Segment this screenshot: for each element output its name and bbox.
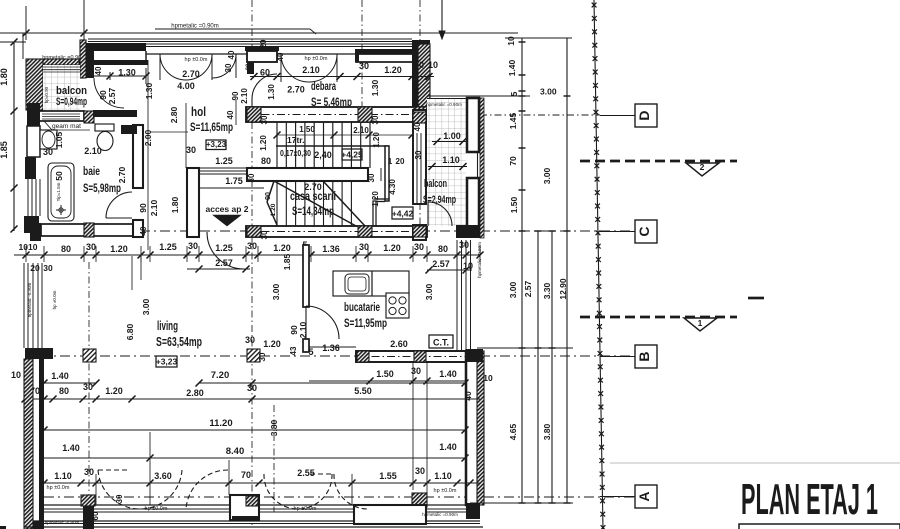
- bottom left corner mark: [0, 526, 6, 529]
- svg-text:hp ±0.0m: hp ±0.0m: [434, 488, 457, 494]
- stair enclosure: [276, 145, 389, 147]
- axis D horizontal: [480, 114, 600, 116]
- balcon right door: [427, 202, 429, 226]
- hol pier: [187, 168, 199, 237]
- svg-text:30: 30: [260, 230, 269, 239]
- grid bubble B: [635, 345, 657, 368]
- svg-text:30: 30: [86, 242, 96, 252]
- debara window arcs: [281, 54, 309, 82]
- svg-text:hol: hol: [191, 104, 206, 119]
- svg-text:30: 30: [186, 145, 196, 155]
- chain x=552: [551, 231, 553, 503]
- svg-text:1.30: 1.30: [370, 79, 380, 96]
- svg-text:1.55: 1.55: [379, 471, 397, 481]
- extension lines below C.T.: [412, 361, 414, 490]
- bucatarie bottom wall: [356, 351, 478, 362]
- svg-text:geam mat: geam mat: [52, 123, 81, 130]
- svg-text:1.85: 1.85: [282, 253, 292, 270]
- svg-text:2.10: 2.10: [240, 88, 249, 104]
- svg-text:2.70: 2.70: [182, 69, 200, 79]
- row 8.40: [44, 457, 465, 459]
- top window band: [88, 38, 412, 40]
- svg-text:1.40: 1.40: [439, 369, 457, 379]
- svg-text:30: 30: [84, 467, 94, 477]
- svg-text:1.80: 1.80: [170, 196, 180, 213]
- svg-text:1.30: 1.30: [144, 82, 154, 99]
- bottom right planter: [412, 493, 427, 507]
- kitchen counter: [333, 271, 409, 296]
- bathtub: [48, 163, 74, 221]
- svg-text:10: 10: [483, 373, 493, 383]
- svg-text:1.80: 1.80: [0, 68, 9, 86]
- svg-text:1.20: 1.20: [273, 243, 291, 253]
- svg-text:2.80: 2.80: [169, 106, 179, 123]
- left wall: black/window segments: [27, 103, 40, 126]
- svg-text:20: 20: [396, 157, 405, 166]
- svg-text:1.25: 1.25: [215, 156, 233, 166]
- svg-text:1.20: 1.20: [371, 191, 380, 207]
- svg-text:4.30: 4.30: [388, 179, 397, 195]
- bottom sill lines: [44, 504, 470, 506]
- svg-text:30: 30: [224, 63, 233, 72]
- svg-text:S=14,34mp: S=14,34mp: [292, 204, 334, 218]
- svg-text:30: 30: [188, 241, 198, 251]
- svg-text:+4,42: +4,42: [392, 209, 414, 219]
- svg-text:1.10: 1.10: [434, 471, 452, 481]
- debara top-right wall: [355, 49, 413, 54]
- svg-text:S=0,94mp: S=0,94mp: [56, 96, 87, 108]
- svg-text:30: 30: [367, 173, 376, 182]
- svg-text:50: 50: [54, 171, 64, 181]
- left chain 1.80/1.85: [13, 42, 15, 231]
- stair treads upper: [276, 122, 278, 168]
- svg-text:3.30: 3.30: [542, 282, 552, 299]
- baie bottom wall: [41, 224, 133, 236]
- svg-text:baie: baie: [83, 164, 100, 178]
- svg-text:2.70: 2.70: [117, 166, 127, 183]
- toilet: [95, 124, 114, 131]
- svg-text:30: 30: [414, 150, 423, 159]
- svg-text:30: 30: [258, 352, 267, 361]
- svg-text:Tip=1.5m: Tip=1.5m: [56, 182, 61, 201]
- bottom piers: [81, 495, 95, 506]
- svg-text:30: 30: [359, 242, 369, 252]
- main dim row: [14, 254, 480, 256]
- svg-text:hpmetalic =0.90m: hpmetalic =0.90m: [426, 102, 462, 107]
- section line 1: [580, 316, 737, 319]
- landing edge lines: [199, 170, 246, 172]
- svg-text:S=11,65mp: S=11,65mp: [190, 120, 233, 134]
- svg-text:30: 30: [459, 240, 469, 250]
- grid bubble A: [635, 485, 657, 508]
- svg-text:20: 20: [246, 63, 252, 70]
- svg-text:70: 70: [508, 156, 518, 166]
- svg-text:1.00: 1.00: [443, 131, 461, 141]
- door arc hol->living: [207, 232, 244, 269]
- svg-text:2.60: 2.60: [390, 339, 408, 349]
- balcon tiles: [43, 65, 80, 110]
- bucatarie right window band: [456, 240, 458, 350]
- svg-text:80: 80: [438, 244, 448, 254]
- svg-text:30: 30: [260, 115, 269, 124]
- svg-text:C.T.: C.T.: [433, 338, 449, 348]
- svg-text:30: 30: [247, 383, 257, 393]
- sink: [40, 130, 57, 149]
- svg-text:2: 2: [700, 162, 705, 172]
- row 1.40/7.20 y=383: [44, 382, 96, 384]
- wall under debara: [246, 107, 427, 122]
- svg-text:5: 5: [308, 347, 313, 357]
- svg-text:hp=0.90: hp=0.90: [44, 86, 49, 103]
- grid bubble D: [635, 104, 657, 127]
- svg-text:6.80: 6.80: [125, 323, 135, 340]
- sill line hol/debara: [146, 53, 412, 55]
- svg-text:30: 30: [115, 494, 124, 503]
- svg-text:2.10: 2.10: [298, 321, 308, 338]
- svg-text:S=5,98mp: S=5,98mp: [83, 181, 121, 195]
- svg-text:hp ±0.0m: hp ±0.0m: [52, 290, 57, 309]
- svg-text:30: 30: [359, 61, 369, 71]
- svg-text:C: C: [636, 226, 652, 236]
- svg-text:3.80: 3.80: [269, 419, 279, 436]
- svg-text:40: 40: [226, 110, 235, 119]
- svg-text:60: 60: [260, 68, 270, 78]
- svg-text:3.00: 3.00: [424, 283, 434, 300]
- svg-text:PLAN ETAJ 1: PLAN ETAJ 1: [741, 475, 878, 524]
- svg-text:10: 10: [428, 60, 438, 70]
- svg-text:S=2,94mp: S=2,94mp: [423, 194, 456, 206]
- svg-text:30: 30: [371, 115, 380, 124]
- axis B horizontal: [40, 355, 631, 357]
- svg-text:90: 90: [231, 91, 240, 100]
- svg-text:1.50: 1.50: [376, 369, 394, 379]
- axis C horizontal: [40, 230, 633, 232]
- balcon right tiles: [427, 99, 466, 226]
- svg-text:2.57: 2.57: [215, 258, 233, 268]
- svg-text:S=63,54mp: S=63,54mp: [156, 334, 202, 349]
- svg-text:1.36: 1.36: [322, 343, 340, 353]
- svg-text:30: 30: [414, 60, 424, 70]
- svg-text:1.30: 1.30: [267, 84, 276, 100]
- axis line vertical x=89: [88, 262, 90, 527]
- svg-text:80: 80: [261, 156, 271, 166]
- svg-text:1.10: 1.10: [442, 155, 460, 165]
- svg-text:30: 30: [411, 366, 421, 376]
- svg-text:S=11,95mp: S=11,95mp: [344, 316, 387, 330]
- svg-text:1.40: 1.40: [62, 443, 80, 453]
- svg-text:1010: 1010: [19, 242, 38, 252]
- svg-text:3.60: 3.60: [154, 471, 172, 481]
- stair top dim row: [277, 134, 412, 136]
- svg-text:11.20: 11.20: [209, 418, 232, 429]
- svg-text:2.10: 2.10: [84, 146, 102, 156]
- svg-text:40: 40: [227, 50, 236, 59]
- debara dim row: [250, 76, 434, 78]
- svg-text:1.45: 1.45: [508, 112, 518, 129]
- baie top wall w/ geam mat: [31, 111, 84, 121]
- svg-text:5.50: 5.50: [354, 386, 372, 396]
- svg-text:30: 30: [83, 382, 93, 392]
- svg-text:40: 40: [413, 122, 422, 131]
- svg-text:30: 30: [43, 263, 53, 273]
- svg-text:1.20: 1.20: [259, 135, 268, 151]
- left lower wall: [25, 348, 53, 359]
- svg-text:30: 30: [43, 147, 53, 157]
- svg-text:3.00: 3.00: [540, 87, 557, 97]
- title block box: [739, 524, 900, 529]
- axis A horizontal: [44, 496, 634, 498]
- svg-text:80: 80: [59, 386, 69, 396]
- baie door arc: [106, 192, 132, 218]
- svg-text:20: 20: [30, 263, 40, 273]
- svg-text:2.80: 2.80: [186, 388, 204, 398]
- section line 2: [580, 160, 737, 163]
- svg-text:1.20: 1.20: [384, 65, 402, 75]
- svg-text:40: 40: [463, 391, 473, 401]
- level mark right: [748, 297, 764, 300]
- svg-text:30: 30: [414, 242, 424, 252]
- row 70/80/30/1.20/2.80: [25, 398, 306, 400]
- top dimension line y=33: [0, 32, 518, 34]
- svg-text:2.55: 2.55: [297, 468, 315, 478]
- svg-text:1.20: 1.20: [263, 339, 281, 349]
- svg-text:2.10: 2.10: [149, 199, 159, 216]
- svg-text:3.00: 3.00: [508, 281, 518, 298]
- svg-text:A: A: [636, 491, 652, 501]
- living top wall: [246, 226, 427, 237]
- svg-text:43: 43: [289, 346, 298, 355]
- hol window arcs: [160, 54, 186, 80]
- wall top-left corner: [80, 40, 86, 78]
- svg-text:1.40: 1.40: [439, 442, 457, 452]
- axis line vertical x=362: [361, 0, 363, 130]
- svg-text:1.40: 1.40: [51, 371, 69, 381]
- svg-text:30: 30: [247, 173, 256, 182]
- svg-text:1.20: 1.20: [110, 244, 128, 254]
- svg-text:90: 90: [265, 192, 272, 200]
- svg-text:+4,25: +4,25: [341, 150, 363, 160]
- chain x=567: [566, 38, 568, 503]
- right wall upper: [413, 110, 426, 204]
- svg-text:+3,23: +3,23: [156, 357, 178, 367]
- living columns: [83, 349, 96, 362]
- svg-text:70: 70: [241, 470, 251, 480]
- svg-text:hp ±0.0m: hp ±0.0m: [305, 56, 328, 62]
- svg-text:+3,23: +3,23: [206, 140, 227, 149]
- C.T. box: [429, 335, 453, 348]
- svg-text:2.57: 2.57: [107, 87, 117, 104]
- axis line vertical x=420: [419, 0, 421, 240]
- svg-text:40: 40: [276, 52, 285, 61]
- svg-text:1: 1: [388, 157, 393, 166]
- balcon right parapet: [427, 95, 467, 97]
- baie right wall: [133, 125, 143, 188]
- svg-text:4.65: 4.65: [508, 423, 518, 440]
- leader arrow top right: [441, 0, 443, 38]
- svg-text:2.70: 2.70: [304, 182, 322, 192]
- door arc debara: [252, 74, 277, 99]
- svg-text:1.50: 1.50: [299, 125, 315, 134]
- property boundary x-line: [594, 0, 603, 529]
- axis line vertical x=252: [251, 0, 253, 46]
- pier between hol/debara windows: [245, 46, 279, 51]
- stair treads lower flight: [276, 181, 278, 226]
- chain connectors: [505, 37, 572, 39]
- svg-text:40: 40: [139, 226, 148, 235]
- right lower wall: [466, 351, 478, 505]
- svg-text:1.25: 1.25: [215, 243, 233, 253]
- svg-text:20: 20: [259, 39, 268, 48]
- svg-text:1.40: 1.40: [507, 59, 517, 76]
- stair break diagonals: [274, 181, 356, 226]
- bottom dashed window arcs: [98, 470, 140, 509]
- svg-text:hp ±0.0m: hp ±0.0m: [47, 485, 70, 491]
- row 11.20: [44, 429, 465, 431]
- faint scan line: [610, 462, 900, 464]
- svg-text:3.00: 3.00: [271, 283, 281, 300]
- partition living/bucatarie: [303, 245, 309, 307]
- svg-text:3.00: 3.00: [141, 298, 151, 315]
- svg-text:1.20: 1.20: [383, 243, 401, 253]
- svg-text:1.20: 1.20: [270, 203, 277, 216]
- svg-text:7.20: 7.20: [211, 370, 230, 381]
- axis line vertical x=274: [273, 405, 275, 512]
- svg-text:living: living: [157, 318, 178, 333]
- svg-text:2.00: 2.00: [143, 129, 153, 146]
- svg-text:B: B: [636, 351, 652, 361]
- balcon TL hatched parapet: [26, 59, 43, 110]
- leader hpmetalic top: [155, 28, 310, 30]
- svg-text:30: 30: [245, 335, 255, 345]
- grid bubble C: [635, 220, 657, 243]
- svg-text:acces ap 2: acces ap 2: [205, 204, 248, 214]
- chain x=522: [521, 38, 523, 503]
- svg-text:2.70: 2.70: [287, 85, 305, 95]
- svg-text:12.90: 12.90: [558, 278, 568, 300]
- kitchen stove: [386, 293, 409, 318]
- svg-text:4.00: 4.00: [177, 81, 195, 91]
- svg-text:debara: debara: [311, 79, 336, 93]
- svg-text:1.10: 1.10: [54, 471, 72, 481]
- svg-text:hpmetalic =0.90m: hpmetalic =0.90m: [422, 512, 458, 517]
- svg-text:80: 80: [61, 244, 71, 254]
- svg-text:8.40: 8.40: [226, 446, 245, 457]
- lower right dim rows: [309, 380, 466, 382]
- svg-text:30: 30: [247, 241, 257, 251]
- svg-text:hpmetalic =0.90m: hpmetalic =0.90m: [171, 24, 219, 30]
- svg-text:30: 30: [415, 466, 425, 476]
- svg-text:hpmetalic -0.90m: hpmetalic -0.90m: [45, 520, 80, 525]
- svg-text:90: 90: [138, 203, 148, 213]
- svg-text:1: 1: [698, 318, 703, 328]
- svg-text:3.00: 3.00: [542, 167, 552, 184]
- living extension lines: [95, 474, 97, 505]
- svg-text:hpmetalic +0.90m: hpmetalic +0.90m: [477, 242, 482, 278]
- svg-text:balcon: balcon: [424, 178, 447, 190]
- svg-text:1.75: 1.75: [225, 176, 243, 186]
- svg-text:1.20: 1.20: [105, 386, 123, 396]
- svg-text:40: 40: [94, 66, 103, 75]
- row 1.10 ..: [44, 482, 480, 484]
- svg-text:1.85: 1.85: [0, 141, 9, 159]
- svg-text:1.50: 1.50: [509, 196, 519, 213]
- chain x=538: [537, 231, 539, 503]
- svg-text:hp ±0.0m: hp ±0.0m: [185, 57, 208, 63]
- svg-text:bucatarie: bucatarie: [344, 302, 380, 314]
- svg-text:10: 10: [463, 261, 473, 271]
- svg-text:10: 10: [11, 370, 21, 380]
- top-right corner wall: [412, 40, 430, 44]
- svg-text:1.25: 1.25: [159, 242, 177, 252]
- svg-text:1.05: 1.05: [54, 131, 64, 148]
- landing bar: [247, 168, 368, 181]
- svg-text:1.36: 1.36: [322, 244, 340, 254]
- svg-text:hpmetalic -0.90m: hpmetalic -0.90m: [27, 282, 32, 317]
- svg-text:D: D: [636, 110, 652, 120]
- svg-text:2.57: 2.57: [432, 259, 450, 269]
- svg-text:60: 60: [91, 511, 100, 520]
- svg-text:3.80: 3.80: [542, 423, 552, 440]
- svg-text:2.57: 2.57: [523, 280, 533, 297]
- balcon left door arc: [94, 78, 124, 108]
- svg-text:2.10: 2.10: [302, 65, 320, 75]
